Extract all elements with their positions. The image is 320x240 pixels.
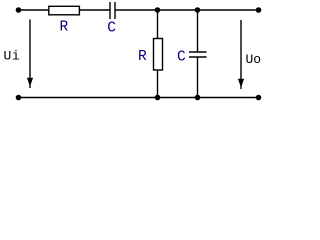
svg-text:R: R (138, 49, 147, 65)
svg-text:C: C (107, 20, 116, 36)
svg-text:Uo: Uo (246, 52, 262, 67)
svg-text:C: C (177, 49, 186, 65)
svg-text:Ui: Ui (4, 49, 21, 64)
svg-text:R: R (60, 20, 69, 36)
